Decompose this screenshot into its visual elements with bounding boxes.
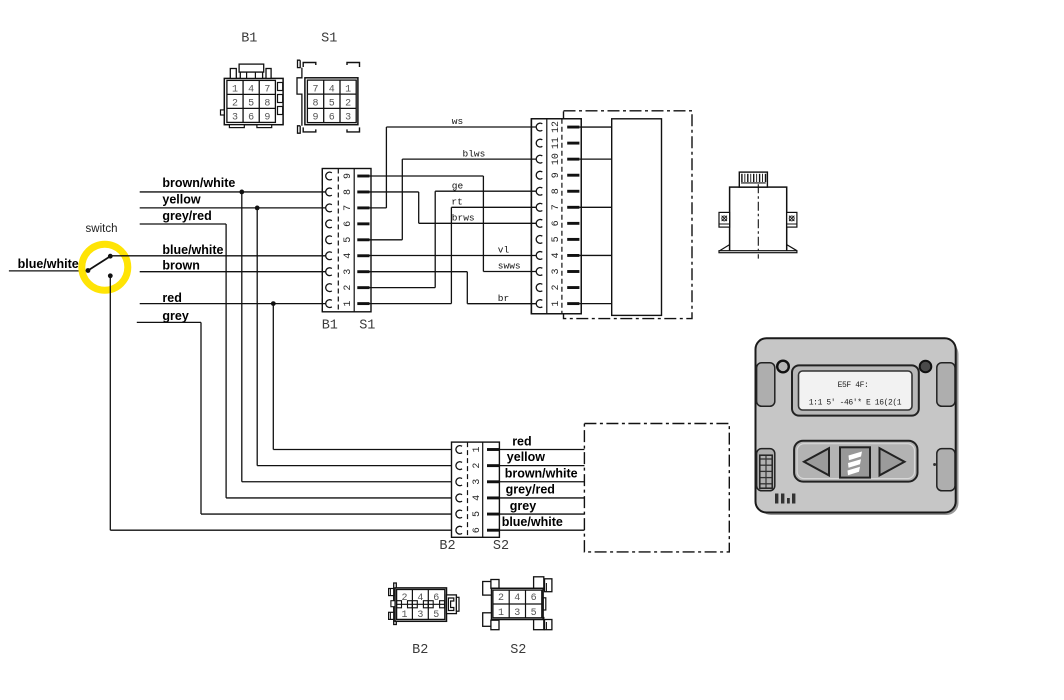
svg-text:5: 5 bbox=[329, 99, 335, 110]
svg-text:6: 6 bbox=[433, 593, 439, 604]
S1 pin 4 bbox=[357, 254, 369, 257]
heater socket pin 4 bbox=[536, 252, 542, 260]
B2 socket pin 2 bbox=[456, 462, 462, 470]
B1 socket pin 1 bbox=[326, 300, 332, 308]
B1 socket pin 8 bbox=[326, 188, 332, 196]
wire red to B1 pin1 bbox=[140, 303, 326, 305]
B2 socket pin 5 bbox=[456, 510, 462, 518]
svg-text:brown/white: brown/white bbox=[505, 467, 578, 481]
wire blue/white to switch bbox=[9, 270, 87, 272]
B2 socket pin 6 bbox=[456, 526, 462, 534]
svg-text:3: 3 bbox=[472, 479, 483, 485]
B2 face right latch bbox=[447, 595, 457, 614]
wire heater pin 1 to block bbox=[579, 303, 611, 305]
heater pin number 7 bbox=[551, 204, 562, 210]
wire S2 pin 5 (grey) to control unit bbox=[499, 513, 584, 515]
controller screw right bbox=[920, 361, 932, 373]
B2 pin number 2 bbox=[472, 463, 483, 469]
svg-text:1: 1 bbox=[345, 84, 351, 95]
svg-text:1: 1 bbox=[472, 446, 483, 452]
heater pin 12 bbox=[567, 126, 579, 129]
svg-text:5: 5 bbox=[472, 511, 483, 517]
switch highlight ring bbox=[82, 244, 128, 290]
S1 pin 6 bbox=[357, 222, 369, 225]
heater pin 7 bbox=[567, 206, 579, 209]
svg-text:5: 5 bbox=[551, 236, 562, 242]
B1 face bottom tabs bbox=[229, 125, 244, 128]
svg-text:7: 7 bbox=[551, 204, 562, 210]
svg-text:2: 2 bbox=[343, 285, 354, 291]
svg-text:7: 7 bbox=[312, 84, 318, 95]
button arrow right bbox=[880, 448, 905, 475]
svg-text:blue/white: blue/white bbox=[502, 515, 563, 529]
svg-text:grey: grey bbox=[510, 499, 536, 513]
pin number 8 bbox=[343, 189, 354, 195]
svg-text:blue/white: blue/white bbox=[18, 257, 79, 271]
heater pin 9 bbox=[567, 174, 579, 177]
heater socket pin 9 bbox=[536, 171, 542, 179]
wire yellow to B1 pin7 bbox=[140, 207, 326, 209]
svg-text:3: 3 bbox=[514, 608, 520, 619]
svg-text:4: 4 bbox=[329, 84, 335, 95]
connector S2 face view bbox=[492, 588, 544, 619]
wire heater pin 10 to block bbox=[579, 158, 611, 160]
S1 pin 1 bbox=[357, 302, 369, 305]
svg-text:grey/red: grey/red bbox=[162, 209, 211, 223]
heater pin number 6 bbox=[551, 220, 562, 226]
svg-text:5: 5 bbox=[343, 237, 354, 243]
heater pin number 10 bbox=[551, 153, 562, 165]
heater pin number 4 bbox=[551, 252, 562, 258]
controller side dot bbox=[933, 463, 936, 466]
fuel pump left bracket bbox=[719, 212, 730, 227]
wire heater pin 12 to block bbox=[579, 126, 611, 128]
wire br : S1 pin3 to heater pin1 bbox=[370, 271, 468, 273]
heater socket pin 11 bbox=[536, 139, 542, 147]
svg-text:5: 5 bbox=[248, 99, 254, 110]
heater pin 2 bbox=[567, 286, 579, 289]
fuel pump centerline bbox=[757, 184, 759, 258]
wire S2 pin 1 (red) to control unit bbox=[499, 449, 584, 451]
heater socket pin 10 bbox=[536, 155, 542, 163]
heater pin 1 bbox=[567, 302, 579, 305]
pin number 9 bbox=[343, 173, 354, 179]
heater pin number 9 bbox=[551, 172, 562, 178]
svg-text:1:1 5' -46'* E 16(2(1: 1:1 5' -46'* E 16(2(1 bbox=[809, 399, 902, 408]
heater pin number 5 bbox=[551, 236, 562, 242]
svg-text:11: 11 bbox=[551, 137, 562, 149]
wire ge : S1 pin2 to heater pin8 bbox=[370, 287, 436, 289]
controller shadow bbox=[759, 342, 959, 515]
heater pin number 2 bbox=[551, 285, 562, 291]
B2 socket pin 3 bbox=[456, 478, 462, 486]
svg-text:4: 4 bbox=[514, 593, 520, 604]
svg-text:red: red bbox=[512, 435, 531, 449]
B2 socket pin 4 bbox=[456, 494, 462, 502]
svg-text:1: 1 bbox=[232, 85, 238, 96]
S2 pin 5 bbox=[487, 513, 499, 516]
pin number 6 bbox=[343, 221, 354, 227]
svg-text:S2: S2 bbox=[493, 539, 509, 554]
svg-text:ws: ws bbox=[452, 116, 463, 127]
svg-text:7: 7 bbox=[343, 205, 354, 211]
svg-text:brown/white: brown/white bbox=[162, 176, 235, 190]
B2 pin number 4 bbox=[472, 495, 483, 501]
wire swws : S1 pin9 to heater pin3 bbox=[370, 175, 484, 177]
S2 face corner tabs bbox=[483, 582, 493, 596]
svg-text:4: 4 bbox=[472, 495, 483, 501]
S2 pin 3 bbox=[487, 480, 499, 483]
svg-text:6: 6 bbox=[531, 593, 537, 604]
S2 pin 6 bbox=[487, 529, 499, 532]
B2 face left tabs bbox=[389, 589, 394, 596]
switch contacts and arm bbox=[88, 256, 110, 270]
wire red down to B2 pin1 bbox=[272, 304, 274, 450]
pin number 2 bbox=[343, 285, 354, 291]
wire brown/white down to B2 pin3 bbox=[241, 192, 243, 482]
B1 socket pin 7 bbox=[326, 204, 332, 212]
svg-text:S1: S1 bbox=[321, 32, 337, 47]
wire ws : S1 pin7 to heater pin12 bbox=[370, 207, 387, 209]
S1 pin 5 bbox=[357, 238, 369, 241]
svg-text:blws: blws bbox=[463, 148, 486, 159]
wire switch to B2 pin6 bbox=[109, 276, 111, 530]
wire heater pin 4 to block bbox=[579, 254, 611, 256]
svg-text:5: 5 bbox=[433, 610, 439, 621]
svg-text:yellow: yellow bbox=[162, 192, 200, 206]
svg-text:3: 3 bbox=[232, 113, 238, 124]
svg-text:3: 3 bbox=[417, 610, 423, 621]
controller button panel bbox=[794, 441, 917, 482]
heater socket pin 8 bbox=[536, 187, 542, 195]
controller display frame bbox=[792, 365, 919, 415]
heater socket pin 1 bbox=[536, 300, 542, 308]
junction dot brown/white bbox=[239, 190, 244, 195]
heater 12-pin connector strip bbox=[531, 119, 581, 314]
controller corner bumper bottom-left bbox=[757, 449, 775, 491]
wire S2 pin 4 (grey/red) to control unit bbox=[499, 497, 584, 499]
svg-text:8: 8 bbox=[312, 99, 318, 110]
svg-text:S2: S2 bbox=[510, 643, 526, 658]
wire grey/red to B2 pin4 bbox=[140, 223, 226, 225]
svg-text:1: 1 bbox=[343, 301, 354, 307]
S1 pin 2 bbox=[357, 286, 369, 289]
connector S1 face view bbox=[305, 78, 358, 125]
svg-text:swws: swws bbox=[498, 261, 521, 272]
svg-text:4: 4 bbox=[248, 85, 254, 96]
svg-text:2: 2 bbox=[345, 99, 351, 110]
B1 socket pin 9 bbox=[326, 172, 332, 180]
controller side connector ribs bbox=[760, 455, 772, 488]
svg-text:4: 4 bbox=[417, 593, 423, 604]
svg-text:5: 5 bbox=[531, 608, 537, 619]
svg-text:7: 7 bbox=[264, 85, 270, 96]
wire brown to B1 pin3 bbox=[140, 271, 326, 273]
controller body bbox=[756, 338, 956, 512]
svg-text:8: 8 bbox=[343, 189, 354, 195]
svg-text:4: 4 bbox=[343, 253, 354, 259]
wire S2 pin 6 (blue/white) to control unit bbox=[499, 529, 584, 531]
svg-text:9: 9 bbox=[343, 173, 354, 179]
svg-text:yellow: yellow bbox=[507, 450, 545, 464]
svg-text:blue/white: blue/white bbox=[162, 243, 223, 257]
B2 pin number 6 bbox=[472, 527, 483, 533]
wire heater pin 7 to block bbox=[579, 206, 611, 208]
connector B2 face view bbox=[394, 583, 397, 625]
heater pin number 1 bbox=[551, 301, 562, 307]
heater pin 8 bbox=[567, 190, 579, 193]
S2 pin 4 bbox=[487, 496, 499, 499]
wire grey to B2 pin5 bbox=[137, 321, 201, 323]
connector strip B2/S2 (6-pin mated pair) bbox=[452, 442, 500, 537]
svg-text:2: 2 bbox=[498, 593, 504, 604]
svg-text:6: 6 bbox=[551, 220, 562, 226]
controller DIP marks bbox=[775, 494, 778, 504]
B1 socket pin 6 bbox=[326, 220, 332, 228]
heater unit dash-dot boundary box bbox=[564, 111, 693, 319]
svg-text:6: 6 bbox=[472, 527, 483, 533]
svg-text:9: 9 bbox=[312, 113, 318, 124]
svg-text:switch: switch bbox=[86, 223, 118, 235]
svg-text:6: 6 bbox=[343, 221, 354, 227]
svg-text:3: 3 bbox=[345, 113, 351, 124]
B1 face top tabs bbox=[239, 64, 264, 72]
svg-text:12: 12 bbox=[551, 121, 562, 133]
junction dot yellow bbox=[255, 206, 260, 211]
svg-text:3: 3 bbox=[343, 269, 354, 275]
heater pin 4 bbox=[567, 254, 579, 257]
wire brws : S1 pin8 to heater pin6 bbox=[370, 191, 419, 193]
svg-text:6: 6 bbox=[329, 113, 335, 124]
button arrow left bbox=[804, 448, 829, 475]
S1 face left profile bbox=[297, 60, 302, 133]
S1 pin 8 bbox=[357, 191, 369, 194]
B2 socket pin 1 bbox=[456, 446, 462, 454]
svg-text:brws: brws bbox=[452, 213, 475, 224]
S1 face corner brackets bbox=[303, 63, 316, 68]
svg-text:8: 8 bbox=[264, 99, 270, 110]
svg-text:B2: B2 bbox=[439, 539, 455, 554]
controller corner bumper top-right bbox=[937, 363, 955, 407]
S2 pin 1 bbox=[487, 448, 499, 451]
svg-text:3: 3 bbox=[551, 268, 562, 274]
pin number 5 bbox=[343, 237, 354, 243]
heater socket pin 2 bbox=[536, 284, 542, 292]
pin number 7 bbox=[343, 205, 354, 211]
fuel pump right bracket bbox=[787, 212, 797, 227]
S1 pin 3 bbox=[357, 270, 369, 273]
heater pin 11 bbox=[567, 142, 579, 145]
button center with logo bbox=[840, 447, 870, 477]
svg-text:rt: rt bbox=[451, 197, 462, 208]
connector strip B1/S1 (mid, 9-pin mated pair) bbox=[322, 169, 371, 312]
heater pin number 8 bbox=[551, 188, 562, 194]
svg-text:1: 1 bbox=[401, 610, 407, 621]
heater internal block bbox=[612, 119, 662, 316]
fuel pump body bbox=[730, 187, 787, 252]
B2 pin number 5 bbox=[472, 511, 483, 517]
fuel pump base bbox=[720, 245, 797, 251]
svg-text:br: br bbox=[498, 293, 509, 304]
S1 pin 7 bbox=[357, 206, 369, 209]
wire brown/white to B1 pin8 bbox=[140, 191, 326, 193]
wire rt : S1 pin1 to heater pin7 bbox=[370, 303, 452, 305]
heater pin 6 bbox=[567, 222, 579, 225]
B1 socket pin 5 bbox=[326, 236, 332, 244]
svg-text:B1: B1 bbox=[322, 319, 338, 334]
junction dot red bbox=[271, 301, 276, 306]
svg-text:2: 2 bbox=[401, 593, 407, 604]
B2 pin number 3 bbox=[472, 479, 483, 485]
svg-text:9: 9 bbox=[551, 172, 562, 178]
B1 face left bump bbox=[221, 110, 225, 115]
pin number 4 bbox=[343, 253, 354, 259]
heater pin 10 bbox=[567, 158, 579, 161]
wire S2 pin 2 (yellow) to control unit bbox=[499, 465, 584, 467]
heater socket pin 6 bbox=[536, 219, 542, 227]
controller screw left bbox=[777, 361, 789, 373]
S1 pin 9 bbox=[357, 175, 369, 178]
svg-text:4: 4 bbox=[551, 252, 562, 258]
svg-text:2: 2 bbox=[551, 285, 562, 291]
svg-text:B1: B1 bbox=[241, 32, 257, 47]
svg-text:10: 10 bbox=[551, 153, 562, 165]
wire vl : S1 pin4 to heater pin4 bbox=[370, 255, 537, 257]
wire yellow down to B2 pin2 bbox=[256, 208, 258, 466]
B1 socket pin 3 bbox=[326, 268, 332, 276]
connector B1 face view bbox=[224, 78, 283, 124]
svg-text:6: 6 bbox=[248, 113, 254, 124]
heater pin number 12 bbox=[551, 121, 562, 133]
heater socket pin 3 bbox=[536, 268, 542, 276]
svg-text:grey/red: grey/red bbox=[506, 483, 555, 497]
svg-text:brown: brown bbox=[162, 258, 200, 272]
control unit dash-dot boundary box bbox=[584, 424, 729, 552]
B2 pin number 1 bbox=[472, 446, 483, 452]
heater pin number 11 bbox=[551, 137, 562, 149]
svg-text:S1: S1 bbox=[359, 319, 375, 334]
wire blue/white switch to B1 pin4 bbox=[112, 255, 326, 257]
svg-text:2: 2 bbox=[472, 463, 483, 469]
svg-text:1: 1 bbox=[551, 301, 562, 307]
svg-text:vl: vl bbox=[498, 245, 510, 256]
S2 pin 2 bbox=[487, 464, 499, 467]
svg-text:9: 9 bbox=[264, 113, 270, 124]
svg-text:1: 1 bbox=[498, 608, 504, 619]
pin number 1 bbox=[343, 301, 354, 307]
svg-text:ge: ge bbox=[452, 180, 464, 191]
svg-text:B2: B2 bbox=[412, 643, 428, 658]
B1 socket pin 4 bbox=[326, 252, 332, 260]
svg-text:8: 8 bbox=[551, 188, 562, 194]
svg-text:grey: grey bbox=[162, 309, 188, 323]
heater socket pin 12 bbox=[536, 123, 542, 131]
fuel pump connector ribs bbox=[739, 172, 767, 187]
heater socket pin 7 bbox=[536, 203, 542, 211]
heater socket pin 5 bbox=[536, 235, 542, 243]
svg-text:red: red bbox=[162, 291, 181, 305]
controller corner bumper top-left bbox=[757, 363, 775, 407]
heater pin number 3 bbox=[551, 268, 562, 274]
svg-text:2: 2 bbox=[232, 99, 238, 110]
pin number 3 bbox=[343, 269, 354, 275]
svg-text:E5F 4F:: E5F 4F: bbox=[838, 381, 869, 390]
B1 socket pin 2 bbox=[326, 284, 332, 292]
controller corner bumper bottom-right bbox=[937, 449, 955, 491]
wire S2 pin 3 (brown/white) to control unit bbox=[499, 481, 584, 483]
heater pin 5 bbox=[567, 238, 579, 241]
heater pin 3 bbox=[567, 270, 579, 273]
wire blws : S1 pin5 to heater pin10 bbox=[370, 239, 403, 241]
B1 face right latch bbox=[278, 83, 283, 91]
controller display bbox=[799, 371, 913, 410]
